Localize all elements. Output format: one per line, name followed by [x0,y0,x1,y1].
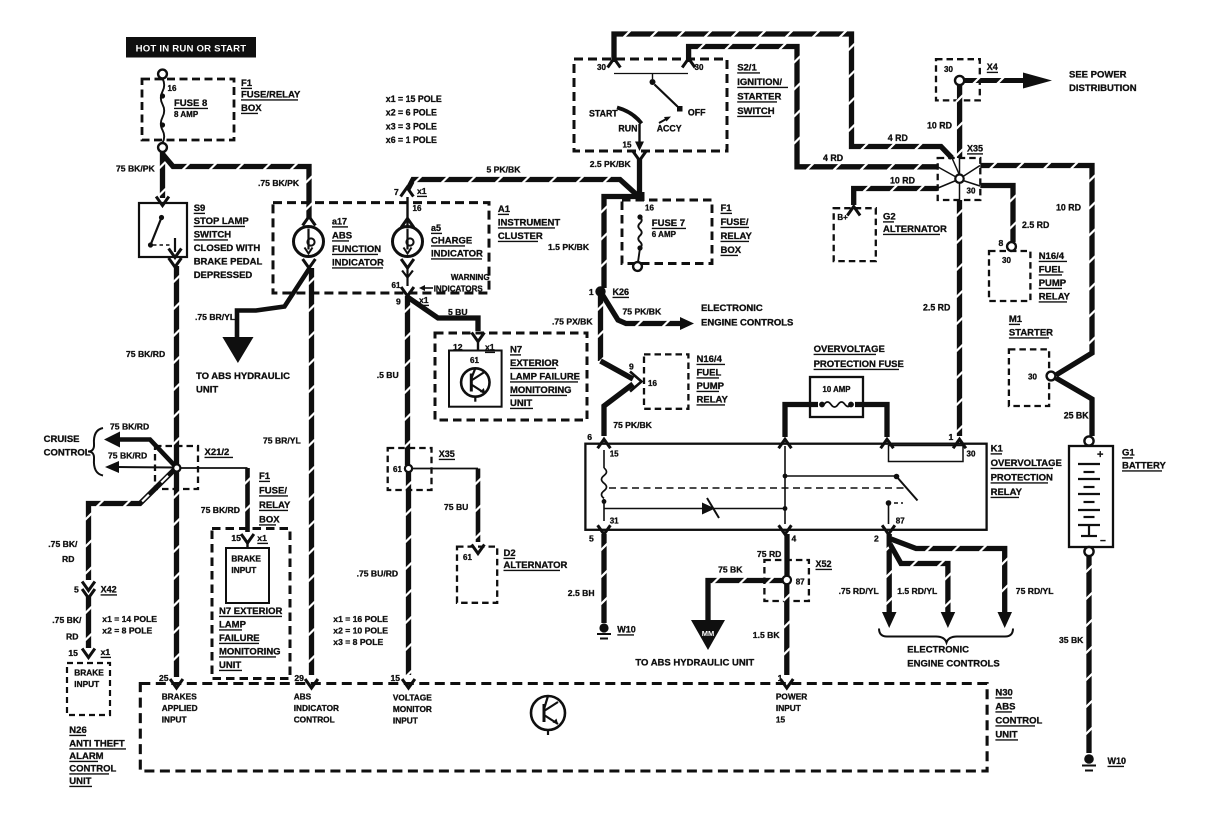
switch S2/1 ignition/starter switch [574,59,727,152]
svg-text:16: 16 [645,204,654,213]
svg-text:−: − [1100,536,1106,547]
svg-text:5 BU: 5 BU [448,307,468,317]
wire 2.5 BR K1 pin 31/5 to ground W10 [601,534,608,623]
label .75 BU/RD [357,569,399,579]
label CRUISE CONTROL [44,428,103,476]
svg-text:16: 16 [648,379,657,388]
transistor inside N7 (61) [449,351,502,407]
box D2 alternator [457,545,497,603]
svg-text:87: 87 [796,578,805,587]
label 75 BK/RD (cruise upper) [110,422,149,432]
pin 1 power input 15 [776,673,807,725]
pin 15 voltage monitor input [391,673,433,726]
relay K1 overvoltage protection relay box [585,444,986,530]
box N30 ABS control unit [140,684,987,772]
svg-text:ACCY: ACCY [657,124,682,134]
label 2.5 BH [568,588,595,598]
svg-text:INPUT: INPUT [776,703,801,713]
pin 4 bottom on K1 [779,525,797,543]
ground W10 (mid) [597,623,636,638]
svg-text:CLOSED WITH: CLOSED WITH [194,243,261,254]
label 35 BK [1059,635,1084,645]
label 75 RD [757,549,781,559]
svg-text:2.5 BH: 2.5 BH [568,588,595,598]
svg-text:STOP LAMP: STOP LAMP [194,216,250,227]
pin 7 x1 on A1 (a5 feed) [394,186,427,213]
svg-text:ANTI THEFT: ANTI THEFT [69,739,125,750]
label 75 BK/PK [116,164,155,174]
svg-text:N16/4: N16/4 [697,354,723,365]
svg-text:9: 9 [396,297,401,307]
legend x1=15 POLE x2=6 POLE x3=3 POLE x6=1 POLE [386,94,442,145]
svg-text:APPLIED: APPLIED [162,703,198,713]
svg-text:FUSE/: FUSE/ [259,486,287,497]
svg-text:10 RD: 10 RD [927,121,952,131]
label S2/1 IGNITION/STARTER SWITCH [737,63,788,118]
wire fuse right leg to K1 [855,405,887,438]
svg-text:x2 = 6 POLE: x2 = 6 POLE [386,108,437,118]
wire 5 PK/BK junction to A1 pin 7 [408,176,638,195]
svg-text:.75 BK/PK: .75 BK/PK [258,178,300,188]
fuse overvoltage protection 10 AMP [810,377,863,417]
svg-text:CONTROL: CONTROL [294,715,335,725]
svg-text:15: 15 [391,673,401,683]
svg-text:30: 30 [967,187,976,196]
box N26 brake input [67,663,110,715]
pin 31 on K1 bottom [598,517,620,535]
svg-text:PUMP: PUMP [697,381,725,392]
svg-text:INDICATOR: INDICATOR [332,258,384,269]
svg-text:75 BK/PK: 75 BK/PK [116,164,155,174]
svg-text:35 BK: 35 BK [1059,635,1084,645]
label G1 BATTERY [1122,448,1166,472]
arrow 75 RD/YL [998,612,1013,628]
svg-text:INPUT: INPUT [393,716,418,726]
K1 bus bar to pin 30 [889,446,964,462]
svg-text:30: 30 [944,65,953,74]
label F1 FUSE/RELAY BOX (left mid) [259,471,291,526]
svg-text:N16/4: N16/4 [1039,251,1065,262]
wire 1.5 PK/BK junction to K26 [601,197,637,289]
wire 75 RD K1 pin 4 to X52 [784,534,789,576]
brace electronic engine controls [879,629,1013,643]
switch S9 stop lamp switch [139,197,187,268]
svg-text:SWITCH: SWITCH [737,106,775,117]
svg-text:B+: B+ [837,213,848,222]
svg-text:15: 15 [231,533,241,543]
label K1 OVERVOLTAGE PROTECTION RELAY [991,444,1062,499]
svg-text:25 BK: 25 BK [1064,411,1090,421]
svg-text:.75 PX/BK: .75 PX/BK [552,317,593,327]
svg-text:SEE POWER: SEE POWER [1069,70,1127,81]
svg-text:OVERVOLTAGE: OVERVOLTAGE [991,458,1062,469]
svg-text:ABS: ABS [332,231,352,242]
wire 25 BK M1 to battery G1 [1056,378,1092,436]
label .75 BR/YL [195,312,235,322]
wire 75 RD/YL branch right [891,539,1008,612]
svg-text:CRUISE: CRUISE [44,434,80,445]
svg-text:F1: F1 [721,203,733,214]
svg-text:15: 15 [610,450,619,459]
svg-text:4 RD: 4 RD [823,153,843,163]
battery G1 [1069,436,1113,556]
wire .75 BK/RD X21/2 to X42 [85,470,174,580]
svg-text:75 BK/RD: 75 BK/RD [110,422,149,432]
label 1.5 PK/BK [548,242,590,252]
svg-text:S9: S9 [194,203,206,214]
pin 15 x1 at N26 [68,647,111,658]
svg-text:75 BK: 75 BK [718,565,743,575]
svg-text:2.5 RD: 2.5 RD [923,303,950,313]
svg-text:INDICATOR: INDICATOR [431,249,483,260]
svg-text:STARTER: STARTER [737,92,781,103]
svg-text:x1: x1 [101,647,111,657]
svg-text:6 AMP: 6 AMP [652,230,677,239]
fuse F8 (FUSE 8, 8 AMP) in F1 fuse/relay box [142,70,234,152]
svg-text:2.5 PK/BK: 2.5 PK/BK [590,159,632,169]
svg-text:ALTERNATOR: ALTERNATOR [883,224,947,235]
svg-text:ENGINE CONTROLS: ENGINE CONTROLS [907,659,999,670]
connector X21/2 [155,446,233,489]
svg-text:SWITCH: SWITCH [194,230,232,241]
svg-text:INPUT: INPUT [231,565,256,575]
label 75 BR/YL (lower) [263,436,301,446]
label 75 PK/BK (branch) [623,307,662,317]
label 75 PK/BK (to K1) [613,420,652,430]
wire 75 PK/BK N16/4 pin 9 to K1 pin 6 [604,384,633,436]
label WARNING INDICATORS [419,273,490,294]
alternator G2 [834,207,876,262]
pin 15 below S2/1 [633,152,646,161]
pin top (fuse right) on K1 [881,439,894,448]
label 2.5 RD (N16/4) [1022,220,1049,230]
svg-text:BRAKES: BRAKES [162,692,198,702]
arrow to electronic engine controls [680,317,694,330]
wire 4 RD bus from S2/1 pin 30 (left) to X35 [614,31,952,158]
svg-text:75 BU: 75 BU [444,502,468,512]
svg-text:30: 30 [1028,373,1037,382]
svg-text:DISTRIBUTION: DISTRIBUTION [1069,83,1137,94]
svg-text:x1: x1 [257,533,267,543]
legend x1=16 POLE x2=10 POLE x3=8 POLE [333,614,388,647]
svg-text:8 AMP: 8 AMP [174,110,199,119]
svg-text:OFF: OFF [688,108,706,118]
wire 2.5 RD X35 to N16/4 pin 8 [980,186,1016,243]
svg-text:x2 = 10 POLE: x2 = 10 POLE [333,626,388,636]
wire 1.5 BK X52 to N30 pin 1 [783,585,790,676]
node: cruise control takeoff arrows at X21/2 [104,432,176,474]
wire to N16/4 pin 9 [601,361,634,379]
svg-text:75 RD/YL: 75 RD/YL [1016,586,1054,596]
svg-text:30: 30 [597,63,606,72]
label S9 STOP LAMP SWITCH [194,203,263,281]
svg-text:IGNITION/: IGNITION/ [737,77,782,88]
svg-text:HOT IN RUN OR START: HOT IN RUN OR START [136,44,247,55]
label A1 INSTRUMENT CLUSTER [498,204,560,242]
svg-text:VOLTAGE: VOLTAGE [393,693,432,703]
svg-text:87: 87 [896,517,905,526]
svg-text:15: 15 [776,715,786,725]
svg-text:16: 16 [413,204,422,213]
svg-text:1: 1 [778,673,783,683]
svg-text:6: 6 [587,432,592,442]
label 75 BU [444,502,468,512]
svg-text:FUEL: FUEL [697,368,722,379]
svg-text:ABS: ABS [995,702,1015,713]
svg-text:BOX: BOX [259,515,280,526]
wire 10 RD X35 to M1 starter [980,162,1095,375]
wire 2.5 PK/BK S2/1 pin15 to junction [637,159,642,192]
svg-text:16: 16 [168,84,177,93]
label .75 PX/BK [552,317,593,327]
svg-text:15: 15 [623,141,632,150]
wire fuse left leg to K1 [785,405,818,438]
svg-text:PUMP: PUMP [1039,278,1067,289]
svg-text:.75 BK/: .75 BK/ [48,539,78,549]
svg-text:RELAY: RELAY [721,231,753,242]
svg-text:30: 30 [695,63,704,72]
svg-text:x1 = 15 POLE: x1 = 15 POLE [386,94,442,104]
svg-text:7: 7 [394,187,399,197]
label TO ABS HYDRAULIC UNIT (left) [196,371,290,396]
svg-text:75 BK/RD: 75 BK/RD [201,505,240,515]
svg-text:DEPRESSED: DEPRESSED [194,270,253,281]
label M1 STARTER [1009,314,1053,339]
svg-text:ELECTRONIC: ELECTRONIC [907,645,969,656]
wire/arrow to SEE POWER DISTRIBUTION [965,73,1053,89]
label 5 (pin) [589,534,594,544]
svg-text:5: 5 [589,534,594,544]
svg-text:MONITORING: MONITORING [510,385,572,396]
svg-text:x2 = 8 POLE: x2 = 8 POLE [102,626,152,636]
K1 mechanical link (dashed) [609,487,905,489]
svg-text:4: 4 [792,534,797,544]
svg-text:F1: F1 [259,471,271,482]
svg-text:MM: MM [702,629,715,638]
svg-text:RELAY: RELAY [1039,292,1071,303]
svg-text:INSTRUMENT: INSTRUMENT [498,218,560,229]
svg-text:BRAKE: BRAKE [231,554,261,564]
connector X4 pin 30 [936,59,998,100]
svg-text:ABS: ABS [294,692,312,702]
svg-text:+: + [1097,449,1103,461]
svg-text:x1 = 16 POLE: x1 = 16 POLE [333,614,388,624]
label 5 PK/BK [487,165,522,175]
pin 15 x1 on N7 lower [231,533,268,548]
svg-text:a5: a5 [431,223,441,233]
wire .5 BU a5 to X35 connector [404,296,411,465]
svg-text:75 RD: 75 RD [757,549,781,559]
label .5 BU [377,370,399,380]
label 2.5 RD (K1) [923,303,950,313]
label 4 RD (lower) [823,153,843,163]
label N30 ABS CONTROL UNIT [995,688,1042,741]
svg-text:PROTECTION FUSE: PROTECTION FUSE [814,359,904,370]
svg-text:RELAY: RELAY [991,487,1023,498]
box N7 exterior lamp failure monitoring unit (upper) [435,333,587,420]
svg-text:FUEL: FUEL [1039,265,1064,276]
label a17 ABS FUNCTION INDICATOR [332,217,384,269]
svg-text:5 PK/BK: 5 PK/BK [487,165,522,175]
svg-text:RUN: RUN [618,124,637,134]
svg-text:RD: RD [66,632,78,642]
svg-text:ALARM: ALARM [69,751,103,762]
fuse F7 (FUSE 7, 6 AMP) in F1 fuse/relay box [622,200,712,271]
wire 4 RD bus from S2/1 pin 30 (right) to X35 [689,43,938,170]
svg-text:K1: K1 [991,444,1004,455]
svg-text:OVERVOLTAGE: OVERVOLTAGE [814,344,885,355]
label 4 RD (upper) [888,133,908,143]
svg-text:CONTROL: CONTROL [69,764,116,775]
svg-text:RELAY: RELAY [697,395,729,406]
svg-text:CONTROL: CONTROL [44,448,91,459]
label 75 RD/YL [1016,586,1054,596]
svg-text:CLUSTER: CLUSTER [498,231,543,242]
indicator a5 charge indicator [392,197,423,296]
svg-text:M1: M1 [1009,314,1023,325]
wire 10 RD X4 to X35 [956,86,963,159]
svg-text:K26: K26 [613,287,630,297]
wire 75 BK/RD S9 to N30 pin 25 [173,266,180,677]
K1 pin4 internal line [783,446,788,524]
label F1 FUSE/RELAY BOX (top left) [241,78,301,114]
box brake input (inside N7 lower) [226,548,269,603]
svg-text:UNIT: UNIT [196,385,218,396]
svg-text:FAILURE: FAILURE [219,633,260,644]
svg-text:LAMP: LAMP [219,620,247,631]
wire 10 RD G2 to X35 [854,185,938,205]
label 10 RD (X4) [927,121,952,131]
svg-text:8: 8 [999,238,1004,248]
svg-text:X52: X52 [816,559,832,569]
label 75 BK/RD (cruise lower) [108,451,147,461]
svg-text:X21/2: X21/2 [205,447,230,458]
svg-text:1.5 RD/YL: 1.5 RD/YL [897,586,937,596]
svg-text:x1: x1 [417,186,427,196]
svg-text:1.5 PK/BK: 1.5 PK/BK [548,242,590,252]
label N16/4 FUEL PUMP RELAY (mid) [697,354,729,406]
pin 87/2 on K1 bottom [874,517,905,544]
svg-text:x6 = 1 POLE: x6 = 1 POLE [386,135,437,145]
svg-text:x3 = 8 POLE: x3 = 8 POLE [333,637,383,647]
svg-text:x3 = 3 POLE: x3 = 3 POLE [386,122,437,132]
wire 75 BU X35 to D2 [412,469,481,543]
svg-text:FUSE 7: FUSE 7 [652,218,685,229]
connector X42 pin 5 [74,582,117,599]
svg-text:PROTECTION: PROTECTION [991,473,1053,484]
label 2.5 PK/BK [590,159,632,169]
wire 75 BK X52 to ABS hydraulic unit arrow [708,577,783,620]
label 75 BK/RD (to brake input) [201,505,240,515]
svg-text:75 BK/RD: 75 BK/RD [126,349,165,359]
svg-text:1: 1 [949,432,954,442]
svg-text:61: 61 [393,465,402,474]
svg-text:N26: N26 [69,725,86,736]
connector X35 (star) [938,144,983,201]
svg-text:9: 9 [629,362,634,372]
svg-text:G2: G2 [883,212,896,223]
svg-text:10 RD: 10 RD [890,176,915,186]
svg-text:FUSE/RELAY: FUSE/RELAY [241,90,301,101]
svg-text:N7: N7 [510,345,522,356]
svg-text:MONITORING: MONITORING [219,647,281,658]
svg-text:INDICATORS: INDICATORS [434,285,484,294]
svg-text:TO ABS HYDRAULIC: TO ABS HYDRAULIC [196,371,290,382]
label .75 BK/RD (two lines) [48,539,78,564]
svg-text:30: 30 [967,450,976,459]
svg-text:W10: W10 [1108,756,1127,766]
svg-text:75 PK/BK: 75 PK/BK [613,420,652,430]
svg-text:FUSE/: FUSE/ [721,217,749,228]
svg-text:X35: X35 [967,144,983,154]
wire .75 BR/YL branch to ABS hydraulic unit [222,269,309,363]
pin 4 top on K1 [779,439,792,448]
wire 5 BU a5 to N7 pin 12 [408,297,479,331]
svg-text:F1: F1 [241,78,253,89]
svg-text:CHARGE: CHARGE [431,236,472,247]
svg-text:61: 61 [463,553,472,562]
label D2 ALTERNATOR [504,548,568,571]
label TO ABS HYDRAULIC UNIT (bottom) [635,658,754,669]
svg-text:EXTERIOR: EXTERIOR [510,358,559,369]
svg-text:N30: N30 [995,688,1012,699]
svg-text:a17: a17 [332,217,347,227]
K1 contact [785,474,918,524]
label .75 BK/RD lower (two lines) [52,615,82,642]
arrow 1.5 RD/YL [941,612,956,628]
label F1 FUSE/RELAY BOX (fuse 7) [721,203,753,256]
pin 6/15 on K1 [587,432,619,459]
svg-text:BRAKE PEDAL: BRAKE PEDAL [194,257,263,268]
pin 9 x1 below A1 [396,295,429,307]
node junction at fuse F7 [636,192,645,201]
label 1.5 BK [753,630,781,640]
svg-text:2: 2 [874,534,879,544]
svg-text:.75 BU/RD: .75 BU/RD [357,569,399,579]
wire 35 BK battery to ground W10 [1086,556,1093,753]
label G2 ALTERNATOR [883,212,947,236]
transistor inside N30 [531,696,565,735]
svg-text:ENGINE CONTROLS: ENGINE CONTROLS [701,318,793,329]
wire 75 BR/YL a17 to N30 pin 29 [308,268,315,675]
svg-text:TO ABS HYDRAULIC UNIT: TO ABS HYDRAULIC UNIT [635,658,754,669]
svg-text:MONITOR: MONITOR [393,704,432,714]
svg-text:5: 5 [74,585,79,595]
svg-text:INPUT: INPUT [74,679,99,689]
box A1 instrument cluster [273,203,489,293]
svg-text:CONTROL: CONTROL [995,716,1042,727]
label 1.5 RD/YL [897,586,937,596]
svg-text:X4: X4 [987,62,998,72]
label N7 EXTERIOR LAMP FAILURE MONITORING UNIT (upper) [510,345,580,410]
svg-text:75 BR/YL: 75 BR/YL [263,436,301,446]
connector X52 pin 87 [764,559,832,601]
svg-text:61: 61 [392,281,401,290]
box N7 exterior lamp failure monitoring unit (lower) [212,529,290,679]
svg-text:10 RD: 10 RD [1056,203,1081,213]
label a5 CHARGE INDICATOR [431,223,483,260]
relay N16/4 fuel pump relay (mid box) [644,354,688,408]
node K26 [589,286,629,297]
svg-text:START: START [589,109,618,119]
wire .75 PX/BK K26 down [597,294,604,364]
label 5 BU [448,307,468,317]
wire .75 BU/RD X35 to N30 pin 15 [405,472,412,677]
svg-text:N7 EXTERIOR: N7 EXTERIOR [219,606,282,617]
label N7 EXTERIOR LAMP FAILURE MONITORING UNIT [219,606,282,671]
svg-text:75 PK/BK: 75 PK/BK [623,307,662,317]
svg-text:15: 15 [68,648,78,658]
